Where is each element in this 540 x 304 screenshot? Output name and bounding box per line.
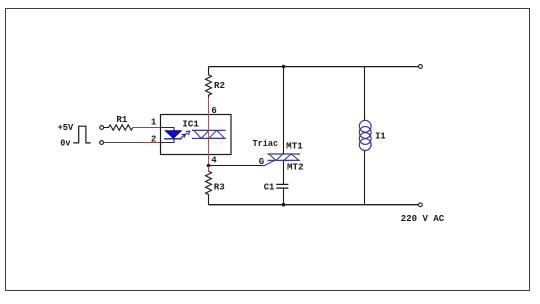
wire pin1 (R1 to IC1) bbox=[133, 127, 161, 129]
triac Q1 bbox=[263, 154, 300, 166]
resistor R2 bbox=[206, 67, 226, 98]
svg-text:R2: R2 bbox=[214, 81, 225, 91]
input terminal bottom bbox=[100, 141, 104, 145]
wire bottom rail bbox=[209, 204, 419, 206]
svg-text:R1: R1 bbox=[116, 115, 128, 125]
wire LED cathode (inside IC1) bbox=[161, 139, 175, 143]
svg-text:6: 6 bbox=[211, 106, 216, 116]
pulse waveform symbol bbox=[73, 126, 91, 143]
node 0v label bbox=[60, 138, 71, 148]
svg-text:C1: C1 bbox=[264, 182, 275, 192]
svg-text:220 V AC: 220 V AC bbox=[401, 214, 445, 224]
wire pin2 (terminal to IC1) bbox=[104, 142, 161, 144]
node G label bbox=[259, 157, 264, 167]
wire top rail to triac MT1 bbox=[283, 67, 285, 155]
op-amp U1: optocoupler IC1 box bbox=[161, 115, 232, 155]
svg-text:R3: R3 bbox=[214, 182, 225, 192]
wire LED anode (inside IC1) bbox=[161, 128, 175, 132]
node pin4 junction bbox=[207, 164, 211, 168]
wire pin6-pin4 through IC1 bbox=[208, 115, 210, 166]
LED diode of IC1 bbox=[164, 131, 182, 139]
svg-text:0v: 0v bbox=[60, 138, 71, 148]
pin 2 label bbox=[151, 135, 156, 145]
terminal top right bbox=[419, 65, 423, 69]
terminal bottom right bbox=[419, 203, 423, 207]
wire C1 to bottom rail bbox=[283, 188, 285, 205]
svg-text:2: 2 bbox=[151, 135, 156, 145]
resistor R1 bbox=[104, 115, 133, 130]
wire top rail bbox=[209, 66, 419, 68]
wire gate (pin4 to triac G) bbox=[209, 165, 264, 167]
pin 4 label bbox=[211, 156, 217, 166]
wire R2 to IC1 pin6 bbox=[208, 98, 210, 115]
input terminal top bbox=[100, 126, 104, 130]
pin 6 label bbox=[211, 106, 216, 116]
resistor R3 bbox=[206, 166, 225, 205]
MT1 label bbox=[286, 141, 303, 151]
inductor I1 bbox=[359, 120, 386, 150]
svg-text:MT2: MT2 bbox=[287, 162, 304, 172]
wire inductor top lead bbox=[364, 67, 366, 121]
light arrows (LED to detector) bbox=[181, 131, 190, 138]
svg-text:Triac: Triac bbox=[253, 139, 279, 149]
svg-text:1: 1 bbox=[151, 118, 157, 128]
node top rail junction bbox=[282, 65, 286, 69]
node 220 V AC label bbox=[401, 214, 445, 224]
capacitor C1 bbox=[264, 182, 289, 192]
svg-text:4: 4 bbox=[211, 156, 217, 166]
svg-text:I1: I1 bbox=[375, 132, 386, 142]
photo-triac detector of IC1 bbox=[192, 130, 226, 138]
svg-text:IC1: IC1 bbox=[182, 120, 199, 130]
svg-text:G: G bbox=[259, 157, 264, 167]
node C1 bottom junction bbox=[282, 203, 286, 207]
MT2 label bbox=[287, 162, 304, 172]
svg-text:+5V: +5V bbox=[58, 123, 74, 133]
node +5V label bbox=[58, 123, 74, 133]
pin 1 label bbox=[151, 118, 157, 128]
wire inductor bottom lead bbox=[364, 151, 366, 205]
svg-text:MT1: MT1 bbox=[286, 141, 303, 151]
Triac label bbox=[253, 139, 279, 149]
wire triac MT2 to C1 bbox=[283, 160, 285, 184]
